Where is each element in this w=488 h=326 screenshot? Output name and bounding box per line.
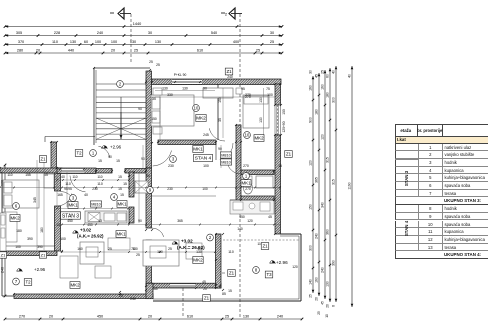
svg-text:130: 130: [259, 97, 263, 103]
svg-text:15: 15: [98, 159, 102, 163]
svg-text:305: 305: [16, 31, 22, 35]
svg-text:20: 20: [49, 315, 53, 319]
svg-text:60: 60: [84, 40, 88, 44]
svg-text:155: 155: [25, 173, 31, 177]
svg-text:T2: T2: [25, 280, 31, 285]
svg-text:Z1: Z1: [229, 271, 235, 276]
svg-text:15: 15: [228, 289, 232, 293]
svg-text:15: 15: [118, 175, 122, 179]
svg-text:130: 130: [162, 87, 168, 91]
svg-text:140: 140: [309, 279, 313, 285]
svg-text:20: 20: [326, 304, 330, 308]
svg-text:20: 20: [111, 49, 115, 53]
svg-text:230: 230: [167, 187, 173, 191]
svg-text:245: 245: [203, 133, 209, 137]
svg-text:Z1: Z1: [226, 69, 232, 74]
svg-text:13: 13: [56, 223, 60, 227]
svg-text:610: 610: [197, 49, 203, 53]
svg-text:270: 270: [245, 187, 251, 191]
svg-text:15: 15: [278, 164, 282, 168]
svg-text:Z1: Z1: [1, 252, 6, 257]
svg-text:95: 95: [64, 187, 68, 191]
svg-text:90: 90: [146, 174, 150, 178]
svg-text:160: 160: [152, 287, 158, 291]
svg-text:1190: 1190: [348, 182, 352, 189]
svg-text:2: 2: [225, 12, 228, 17]
svg-text:+2.96: +2.96: [276, 260, 288, 265]
svg-text:25: 25: [256, 49, 260, 53]
svg-text:25: 25: [321, 70, 325, 74]
svg-text:110: 110: [52, 40, 58, 44]
svg-text:240: 240: [1, 267, 5, 273]
svg-text:540: 540: [211, 31, 217, 35]
svg-text:20: 20: [315, 297, 319, 301]
svg-text:10: 10: [325, 314, 329, 318]
svg-text:110: 110: [97, 182, 103, 186]
svg-text:270: 270: [245, 95, 251, 99]
svg-text:M810: M810: [91, 202, 101, 206]
svg-text:100: 100: [60, 237, 66, 241]
svg-text:110: 110: [72, 175, 77, 179]
svg-text:25: 25: [225, 315, 229, 319]
svg-text:STAN 3: STAN 3: [62, 213, 79, 219]
svg-text:STAN 4: STAN 4: [195, 156, 212, 162]
svg-text:130: 130: [182, 87, 188, 91]
svg-text:45: 45: [315, 74, 319, 78]
svg-text:240: 240: [227, 75, 233, 79]
svg-text:15: 15: [116, 159, 120, 163]
svg-text:30: 30: [148, 31, 152, 35]
svg-text:20: 20: [148, 315, 152, 319]
svg-text:315: 315: [326, 157, 330, 163]
svg-text:25: 25: [309, 294, 313, 298]
svg-text:100: 100: [111, 40, 117, 44]
svg-text:300: 300: [332, 97, 336, 103]
svg-text:15: 15: [123, 182, 127, 186]
svg-text:130: 130: [155, 40, 161, 44]
svg-text:230: 230: [168, 164, 174, 168]
svg-text:120+90: 120+90: [282, 121, 286, 132]
svg-text:450: 450: [67, 219, 73, 223]
svg-text:35: 35: [152, 97, 156, 101]
svg-text:150: 150: [282, 109, 286, 115]
svg-text:M810: M810: [221, 153, 231, 157]
svg-text:15: 15: [120, 193, 124, 197]
svg-text:40: 40: [61, 175, 65, 179]
svg-text:40: 40: [84, 193, 88, 197]
svg-text:180: 180: [40, 227, 44, 233]
svg-text:300: 300: [309, 245, 313, 251]
svg-text:Z1: Z1: [41, 252, 46, 257]
svg-text:15: 15: [118, 187, 122, 191]
svg-text:240: 240: [277, 315, 283, 319]
svg-text:(A.K.= 26.92): (A.K.= 26.92): [177, 245, 205, 250]
svg-text:85: 85: [222, 292, 226, 296]
svg-text:150: 150: [151, 117, 157, 121]
svg-text:440: 440: [68, 49, 74, 53]
svg-text:+3.02: +3.02: [80, 228, 92, 233]
svg-text:25: 25: [134, 49, 138, 53]
svg-text:90: 90: [108, 155, 112, 159]
svg-text:160: 160: [321, 84, 325, 90]
svg-text:240: 240: [97, 31, 103, 35]
svg-text:120: 120: [321, 134, 325, 140]
svg-text:228: 228: [54, 31, 60, 35]
svg-text:90: 90: [138, 107, 142, 111]
svg-text:160: 160: [315, 277, 319, 283]
svg-text:25: 25: [270, 40, 274, 44]
svg-text:45: 45: [321, 301, 325, 305]
svg-text:90: 90: [218, 147, 222, 151]
svg-text:1440: 1440: [133, 22, 141, 26]
svg-text:360: 360: [326, 229, 330, 235]
svg-text:25: 25: [136, 253, 140, 257]
svg-text:25: 25: [156, 63, 160, 67]
svg-text:150: 150: [218, 97, 222, 103]
svg-text:180: 180: [326, 92, 330, 98]
svg-text:610: 610: [187, 315, 193, 319]
svg-text:390: 390: [37, 245, 43, 249]
svg-text:20: 20: [36, 49, 40, 53]
svg-text:T3: T3: [266, 272, 272, 277]
svg-text:45: 45: [268, 215, 272, 219]
svg-text:+2.96: +2.96: [110, 145, 122, 150]
svg-text:365: 365: [177, 219, 183, 223]
svg-text:390: 390: [332, 260, 336, 266]
svg-text:280: 280: [17, 49, 23, 53]
svg-text:165: 165: [57, 193, 63, 197]
svg-text:25: 25: [317, 311, 321, 315]
svg-text:15: 15: [44, 173, 48, 177]
svg-text:95: 95: [241, 87, 245, 91]
svg-text:MK1: MK1: [241, 181, 251, 186]
svg-text:25: 25: [149, 60, 153, 64]
svg-text:13: 13: [98, 219, 102, 223]
svg-text:160: 160: [77, 247, 83, 251]
svg-text:Z1: Z1: [286, 152, 292, 157]
svg-text:120: 120: [247, 219, 253, 223]
svg-text:MK2: MK2: [193, 258, 203, 263]
svg-text:110: 110: [65, 182, 71, 186]
svg-text:Z1: Z1: [262, 244, 268, 249]
svg-text:150: 150: [309, 204, 313, 210]
svg-text:400: 400: [233, 40, 239, 44]
svg-text:345: 345: [33, 197, 37, 203]
svg-text:270: 270: [19, 315, 25, 319]
svg-text:MK2: MK2: [196, 116, 206, 121]
svg-text:450: 450: [239, 215, 245, 219]
svg-text:130: 130: [70, 40, 76, 44]
svg-text:90: 90: [138, 219, 142, 223]
svg-text:180: 180: [16, 229, 22, 233]
svg-text:100: 100: [267, 93, 273, 97]
svg-text:130: 130: [326, 281, 330, 287]
svg-text:130: 130: [243, 315, 249, 319]
svg-text:140: 140: [237, 227, 243, 231]
svg-text:30: 30: [309, 70, 313, 74]
svg-text:45: 45: [202, 280, 206, 284]
svg-text:180: 180: [315, 109, 319, 115]
svg-text:Z1: Z1: [204, 296, 210, 301]
svg-text:25: 25: [108, 247, 112, 251]
svg-text:20: 20: [119, 294, 123, 298]
svg-text:130: 130: [259, 117, 263, 123]
svg-text:(A.K.= 26.92): (A.K.= 26.92): [77, 234, 104, 239]
svg-text:240: 240: [130, 297, 136, 301]
svg-text:390: 390: [27, 237, 33, 241]
svg-text:240: 240: [321, 267, 325, 273]
svg-text:MK1: MK1: [117, 202, 127, 207]
svg-text:MK2: MK2: [70, 283, 80, 288]
svg-text:100: 100: [95, 40, 101, 44]
svg-text:75: 75: [266, 87, 270, 91]
svg-text:MK2: MK2: [10, 216, 20, 221]
svg-text:MK2: MK2: [254, 136, 264, 141]
svg-text:20: 20: [203, 287, 207, 291]
svg-text:110: 110: [97, 175, 102, 179]
svg-text:340: 340: [321, 202, 325, 208]
svg-text:900: 900: [309, 117, 313, 123]
svg-text:100: 100: [15, 245, 21, 249]
svg-text:35: 35: [218, 118, 222, 122]
svg-text:100: 100: [202, 187, 208, 191]
svg-text:240: 240: [315, 233, 319, 239]
svg-text:450: 450: [97, 315, 103, 319]
svg-text:230: 230: [92, 187, 98, 191]
svg-text:10: 10: [194, 106, 199, 111]
svg-text:120: 120: [292, 265, 298, 269]
svg-text:P+KL 90: P+KL 90: [174, 73, 187, 77]
svg-text:270: 270: [243, 164, 249, 168]
svg-text:8: 8: [332, 305, 336, 307]
svg-text:MK1: MK1: [193, 147, 203, 152]
svg-text:40: 40: [348, 74, 352, 78]
svg-text:10: 10: [245, 133, 250, 138]
svg-text:40: 40: [332, 70, 336, 74]
svg-text:+3.02: +3.02: [181, 239, 193, 244]
svg-text:30: 30: [270, 31, 274, 35]
svg-text:M810: M810: [221, 160, 231, 164]
svg-text:+2.96: +2.96: [34, 267, 46, 272]
svg-text:100: 100: [203, 164, 209, 168]
svg-text:330: 330: [167, 93, 173, 97]
svg-text:315: 315: [332, 179, 336, 185]
svg-text:MK1: MK1: [116, 232, 126, 237]
svg-text:110: 110: [228, 250, 234, 254]
svg-text:25: 25: [168, 247, 172, 251]
svg-text:110: 110: [7, 173, 12, 177]
svg-text:MK1: MK1: [68, 203, 78, 208]
svg-text:160: 160: [309, 85, 313, 91]
svg-text:90: 90: [203, 87, 207, 91]
svg-text:450: 450: [87, 223, 93, 227]
svg-text:Z1: Z1: [41, 157, 47, 162]
svg-text:130: 130: [132, 247, 138, 251]
svg-text:370: 370: [18, 40, 24, 44]
svg-text:60: 60: [326, 74, 330, 78]
svg-text:120: 120: [309, 160, 313, 166]
svg-text:T2: T2: [76, 151, 82, 156]
svg-text:365: 365: [315, 177, 319, 183]
